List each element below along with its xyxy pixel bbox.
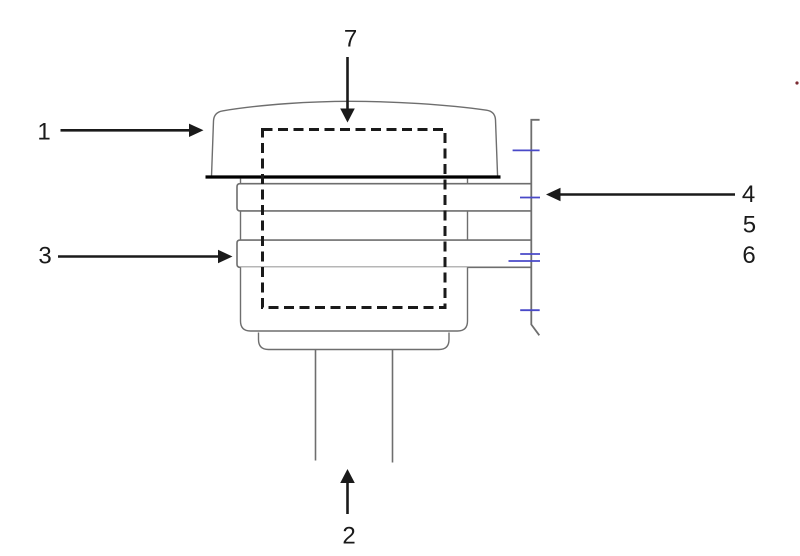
stray red dot: [795, 81, 798, 84]
arrow 3: [58, 250, 233, 263]
svg-text:3: 3: [38, 242, 51, 269]
svg-text:2: 2: [342, 523, 355, 550]
panel mounting line: [531, 120, 539, 335]
stem left terminal: [315, 350, 317, 461]
collar below body: [259, 333, 450, 350]
dashed inspection rectangle: [263, 130, 446, 308]
body lower section with rounded bottom: [241, 267, 468, 331]
arrow 4: [546, 188, 735, 201]
svg-text:6: 6: [742, 242, 755, 269]
blue tick 1: [513, 149, 540, 151]
neck left edge: [240, 179, 242, 185]
arrow 7: [340, 57, 355, 123]
svg-text:7: 7: [344, 26, 357, 53]
blue tick 4: [509, 260, 541, 262]
flange band 1: [237, 184, 531, 211]
stem right terminal: [392, 350, 394, 463]
svg-text:5: 5: [743, 212, 756, 239]
neck right edge: [467, 179, 469, 185]
body side edges between flanges: [240, 211, 242, 240]
flange band 2: [237, 240, 531, 267]
blue tick 3: [520, 253, 540, 255]
svg-text:4: 4: [742, 181, 755, 208]
blue tick 5: [520, 309, 540, 311]
svg-text:1: 1: [37, 118, 50, 145]
blue tick 2: [520, 197, 540, 199]
arrow 1: [61, 124, 204, 137]
cap (button top): [212, 101, 498, 176]
cap base thick line: [206, 175, 501, 178]
arrow 2: [340, 469, 355, 514]
